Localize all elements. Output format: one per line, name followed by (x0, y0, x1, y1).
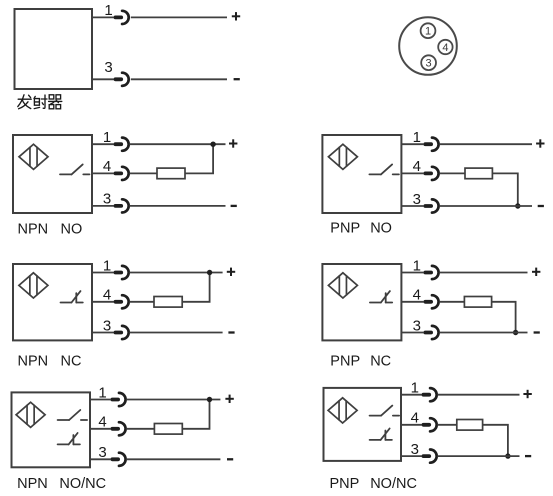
connector pin 4 (PNP NO) (423, 167, 438, 180)
wire 4 to load (PNP NO) (439, 172, 465, 174)
svg-text:PNP: PNP (330, 476, 360, 492)
svg-text:3: 3 (411, 441, 419, 458)
connector pin 3 (transmitter) (114, 73, 129, 86)
NC switch contact (PNP NC) (370, 291, 392, 302)
proximity sensor symbol (PNP NC) (328, 273, 357, 298)
svg-text:3: 3 (98, 444, 106, 461)
- terminal (NPN NO) (231, 205, 237, 207)
- terminal (PNP NO/NC) (525, 455, 531, 457)
NO switch contact (NPN NO/NC) (58, 410, 88, 420)
wire 4 to load (PNP NO/NC) (437, 424, 456, 426)
svg-text:3: 3 (426, 58, 432, 70)
wire 4 lead (NPN NO) (92, 172, 114, 174)
connector pin 3 (PNP NO/NC) (422, 450, 437, 463)
wire load to rail (PNP NO/NC) (483, 425, 508, 456)
svg-text:4: 4 (442, 42, 448, 54)
load resistor (PNP NC) (464, 297, 491, 308)
wire 1 to + rail (PNP NO/NC) (437, 394, 519, 396)
NC switch contact (NPN NO/NC) (58, 433, 80, 444)
wire 4 to load (PNP NC) (439, 301, 464, 303)
wire 3 to - rail (NPN NC) (129, 332, 222, 334)
load resistor (NPN NO/NC) (154, 424, 182, 435)
wire 1 to + rail (NPN NC) (129, 272, 222, 274)
wire 1 lead (transmitter) (92, 16, 114, 18)
svg-text:4: 4 (413, 287, 421, 304)
wire 1 to + rail (NPN NO) (129, 143, 225, 145)
connector pin 4 (PNP NO/NC) (422, 418, 437, 431)
sensor box (PNP NO/NC) (324, 388, 402, 461)
transmitter box (15, 9, 93, 89)
wire 1 to + rail (PNP NO) (439, 143, 532, 145)
sensor box (PNP NC) (322, 264, 401, 340)
label 发射器 (transmitter) (18, 95, 62, 109)
connector pin 1 (NPN NO) (114, 138, 129, 151)
svg-text:NO: NO (61, 222, 83, 238)
pin 3 circle (421, 55, 436, 70)
wire load to rail (NPN NO) (185, 144, 213, 173)
connector pin 3 (PNP NO) (423, 199, 438, 212)
svg-text:1: 1 (411, 380, 419, 397)
svg-text:1: 1 (103, 257, 111, 274)
wire 4 lead (NPN NC) (92, 301, 114, 303)
svg-text:NO/NC: NO/NC (59, 476, 106, 492)
connector pin 3 (NPN NC) (114, 326, 129, 339)
connector pin 1 (PNP NO/NC) (422, 388, 437, 401)
svg-text:1: 1 (413, 257, 421, 274)
- terminal (transmitter) (234, 78, 240, 80)
wire 3 to - rail (PNP NC) (439, 332, 527, 334)
pin 4 circle (438, 40, 452, 54)
connector pin 1 (NPN NC) (114, 266, 129, 279)
NO switch contact (PNP NO/NC) (370, 406, 400, 416)
svg-text:3: 3 (413, 191, 421, 208)
wire 3 lead (NPN NC) (92, 332, 114, 334)
wire 3 to - rail (PNP NO/NC) (437, 455, 519, 457)
NO switch contact (PNP NO) (369, 164, 399, 174)
load resistor (PNP NO/NC) (457, 420, 483, 431)
wire 3 to - rail (NPN NO/NC) (126, 458, 220, 460)
wire 1 lead (NPN NO) (92, 143, 114, 145)
NO switch contact (NPN NO) (60, 164, 90, 174)
wire 1 lead (NPN NO/NC) (90, 399, 110, 401)
svg-text:1: 1 (413, 129, 421, 146)
proximity sensor symbol (NPN NO/NC) (16, 402, 45, 427)
pin 1 circle (421, 23, 436, 38)
+ terminal (NPN NC) (227, 268, 235, 276)
svg-text:4: 4 (103, 158, 111, 175)
- terminal (PNP NC) (534, 331, 540, 333)
connector pin 1 (NPN NO/NC) (110, 393, 125, 406)
connector pin 4 (NPN NO/NC) (110, 422, 125, 435)
svg-text:1: 1 (103, 129, 111, 146)
connector pin 1 (PNP NC) (423, 266, 438, 279)
wire 3 to - (transmitter) (131, 78, 227, 80)
wire 3 lead (PNP NC) (401, 332, 423, 334)
svg-text:4: 4 (103, 287, 111, 304)
sensor box (NPN NC) (13, 264, 92, 340)
proximity sensor symbol (PNP NO/NC) (328, 398, 357, 423)
sensor box (NPN NO/NC) (12, 392, 91, 467)
wire 4 to load (NPN NO) (129, 172, 157, 174)
svg-text:3: 3 (103, 191, 111, 208)
connector pin 4 (PNP NC) (423, 295, 438, 308)
connector face circle (399, 17, 457, 75)
NC switch contact (NPN NC) (61, 291, 83, 302)
wire load to rail (NPN NC) (182, 273, 209, 302)
wire 1 lead (PNP NC) (401, 272, 423, 274)
connector pin 3 (PNP NC) (423, 326, 438, 339)
wire 3 to - rail (PNP NO) (439, 205, 532, 207)
wire 4 lead (NPN NO/NC) (90, 428, 110, 430)
connector pin 3 (NPN NO) (114, 199, 129, 212)
load resistor (NPN NO) (157, 168, 185, 179)
load resistor (PNP NO) (465, 168, 492, 179)
connector pin 1 (PNP NO) (423, 138, 438, 151)
+ terminal (transmitter) (232, 12, 240, 20)
svg-text:4: 4 (413, 158, 421, 175)
wire 1 lead (PNP NO/NC) (401, 394, 422, 396)
svg-text:NPN: NPN (18, 354, 49, 370)
+ terminal (PNP NO/NC) (523, 390, 531, 398)
svg-text:PNP: PNP (330, 354, 360, 370)
connector pin 4 (NPN NO) (114, 167, 129, 180)
svg-text:1: 1 (425, 26, 431, 38)
wire load to rail (PNP NO) (492, 173, 517, 206)
proximity sensor symbol (PNP NO) (328, 144, 357, 169)
NC switch contact (PNP NO/NC) (370, 429, 392, 440)
wire 3 lead (NPN NO/NC) (90, 458, 110, 460)
connector pin 3 (NPN NO/NC) (110, 453, 125, 466)
svg-text:NPN: NPN (18, 222, 49, 238)
svg-text:NC: NC (370, 354, 391, 370)
proximity sensor symbol (NPN NO) (19, 144, 48, 169)
svg-text:4: 4 (98, 414, 106, 431)
svg-text:3: 3 (103, 317, 111, 334)
svg-text:NPN: NPN (17, 476, 48, 492)
svg-text:NO: NO (370, 221, 392, 237)
junction dot (NPN NC) (207, 270, 212, 275)
wire 1 lead (NPN NC) (92, 272, 114, 274)
wire 3 lead (transmitter) (92, 78, 114, 80)
junction dot (PNP NO) (515, 203, 520, 208)
svg-text:PNP: PNP (330, 221, 360, 237)
junction dot (NPN NO/NC) (207, 397, 212, 402)
proximity sensor symbol (NPN NC) (19, 273, 48, 298)
wire 1 lead (PNP NO) (401, 143, 423, 145)
svg-text:1: 1 (98, 384, 106, 401)
+ terminal (PNP NC) (532, 268, 540, 276)
sensor box (NPN NO) (13, 135, 92, 213)
svg-text:4: 4 (411, 410, 419, 427)
load resistor (NPN NC) (154, 297, 182, 308)
svg-text:1: 1 (104, 2, 112, 19)
- terminal (NPN NC) (228, 331, 234, 333)
connector pin 4 (NPN NC) (114, 295, 129, 308)
svg-text:NO/NC: NO/NC (370, 476, 417, 492)
- terminal (PNP NO) (538, 205, 544, 207)
wire 4 lead (PNP NO) (401, 172, 423, 174)
- terminal (NPN NO/NC) (227, 458, 233, 460)
wire load to rail (NPN NO/NC) (182, 400, 209, 429)
junction dot (NPN NO) (210, 142, 215, 147)
svg-text:3: 3 (104, 59, 112, 76)
wire load to rail (PNP NC) (492, 302, 516, 333)
junction dot (PNP NO/NC) (505, 453, 510, 458)
wire 3 lead (PNP NO/NC) (401, 455, 422, 457)
wire 4 to load (NPN NO/NC) (126, 428, 154, 430)
wire 4 lead (PNP NO/NC) (401, 424, 422, 426)
connector pin 1 (transmitter) (114, 11, 129, 24)
svg-text:NC: NC (61, 354, 82, 370)
wire 1 to + rail (PNP NC) (439, 272, 527, 274)
wire 4 to load (NPN NC) (129, 301, 154, 303)
+ terminal (PNP NO) (536, 139, 544, 147)
wire 3 lead (PNP NO) (401, 205, 423, 207)
wire 3 to - rail (NPN NO) (129, 205, 225, 207)
+ terminal (NPN NO) (229, 139, 237, 147)
+ terminal (NPN NO/NC) (225, 395, 233, 403)
wire 1 to + (transmitter) (131, 16, 227, 18)
wire 4 lead (PNP NC) (401, 301, 423, 303)
junction dot (PNP NC) (513, 330, 518, 335)
svg-text:3: 3 (413, 317, 421, 334)
wire 1 to + rail (NPN NO/NC) (126, 399, 220, 401)
wire 3 lead (NPN NO) (92, 205, 114, 207)
sensor box (PNP NO) (322, 135, 401, 213)
